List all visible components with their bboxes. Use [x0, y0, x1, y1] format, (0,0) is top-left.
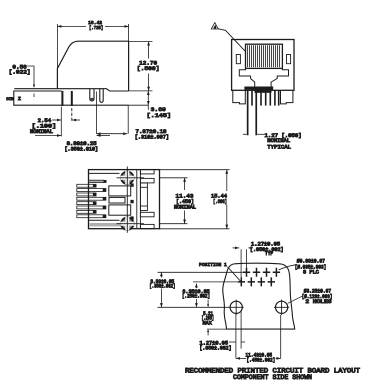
extension line 12.70 bottom	[129, 90, 153, 92]
svg-text:2 HOLES: 2 HOLES	[305, 299, 331, 305]
contact comb teeth	[77, 184, 106, 218]
dim 0.56 leader	[27, 66, 35, 97]
svg-text:POSITION 1: POSITION 1	[199, 262, 227, 268]
svg-text:[.250±.002]: [.250±.002]	[182, 294, 210, 300]
svg-text:[.022]: [.022]	[9, 68, 31, 75]
spine rects	[140, 170, 154, 229]
extension bottom pin row	[193, 281, 237, 283]
side view base plate top line	[14, 89, 128, 91]
mounting hole left	[230, 301, 242, 313]
right ear notch	[287, 55, 291, 64]
crosshair vertical	[126, 167, 128, 233]
revision triangle flag	[211, 23, 218, 29]
front view outer body	[232, 40, 294, 91]
inner row pin squares	[130, 183, 133, 219]
extension top pin row	[158, 271, 243, 273]
dim 2.54	[52, 119, 80, 121]
dim 5.21 max	[207, 300, 209, 336]
left ear notch	[236, 55, 240, 64]
extension line body right lower	[127, 105, 129, 134]
dim 1.27 typ top	[233, 248, 251, 278]
svg-text:[.350±.002]: [.350±.002]	[149, 283, 175, 289]
svg-text:8 PLC: 8 PLC	[303, 270, 319, 276]
mounting hole right	[276, 301, 288, 313]
svg-text:NOMINAL: NOMINAL	[30, 129, 53, 135]
dim 18.42	[57, 24, 128, 69]
dim 8.89 pcb	[160, 272, 162, 307]
svg-text:[.450±.002]: [.450±.002]	[247, 358, 276, 364]
pin P2 side view	[71, 91, 73, 106]
right bottom tab	[281, 90, 293, 104]
svg-text:Z: Z	[18, 96, 21, 102]
crosshair horizontal top	[117, 177, 145, 179]
svg-text:[.310±.007]: [.310±.007]	[135, 135, 169, 141]
extension line peg right	[96, 92, 98, 134]
pcb outline blob	[223, 263, 295, 329]
svg-text:[.145]: [.145]	[147, 112, 172, 119]
dim 3.69	[147, 91, 149, 105]
top gray contact strip	[89, 180, 104, 182]
svg-text:[.725]: [.725]	[89, 25, 103, 31]
pin holes top row	[243, 268, 280, 277]
side view front box (DIM Z)	[14, 91, 62, 105]
side view body outline	[57, 41, 128, 91]
leader from flag	[218, 29, 245, 52]
bottom view body	[89, 170, 160, 229]
contact block hatched	[246, 44, 283, 68]
dim 1.27 bottom	[229, 341, 236, 343]
dim 8.89+-0.25	[35, 135, 110, 137]
extension hole centerline	[158, 306, 230, 308]
pin P2 hidden line	[71, 108, 73, 121]
dim 11.43 mid	[160, 178, 188, 224]
svg-text:[.050±.002]: [.050±.002]	[200, 346, 232, 352]
dia 3.25 callout	[288, 296, 303, 304]
svg-text:NOMINAL: NOMINAL	[267, 138, 290, 144]
svg-text:TYPICAL: TYPICAL	[267, 144, 291, 150]
svg-text:[.608]: [.608]	[213, 199, 227, 205]
pin P1 side view	[61, 91, 63, 106]
svg-text:4: 4	[214, 26, 216, 30]
inner rectangles	[109, 186, 131, 215]
latch slot bar	[255, 87, 272, 93]
side view body bottom line	[62, 104, 129, 106]
svg-text:Ø0.89±0.07: Ø0.89±0.07	[297, 257, 325, 264]
peg post 2	[100, 89, 103, 102]
dim 11.43 bottom	[236, 311, 281, 358]
spine lines	[136, 170, 138, 229]
crosshair horizontal bottom	[117, 223, 145, 225]
left bottom tab	[233, 90, 246, 104]
svg-text:MAX: MAX	[203, 321, 212, 327]
bottom gray strip	[89, 223, 124, 226]
svg-text:TYP: TYP	[265, 251, 273, 257]
dim 1.27 nominal typical	[243, 133, 264, 135]
dim 6.35 pcb	[195, 284, 197, 308]
dia 0.89 callout	[279, 265, 296, 270]
extension bottom edge	[207, 328, 227, 330]
dim 15.44	[160, 170, 230, 229]
svg-text:[.500]: [.500]	[137, 65, 160, 72]
svg-text:DIM: DIM	[6, 98, 14, 102]
dim 12.70	[148, 42, 150, 91]
peg post 1	[90, 89, 94, 101]
extension line 12.70 top	[129, 41, 153, 43]
pin holes bottom row	[238, 277, 275, 286]
svg-text:COMPONENT SIDE SHOWN: COMPONENT SIDE SHOWN	[233, 374, 312, 382]
svg-text:18.42: 18.42	[88, 20, 102, 26]
socket cavity outline	[239, 68, 288, 87]
extension line 3.69 bottom	[129, 104, 149, 106]
svg-text:NOMINAL: NOMINAL	[174, 205, 196, 211]
svg-text:[.350±.010]: [.350±.010]	[65, 147, 99, 153]
extension line pin1 left	[60, 107, 62, 137]
front view pins	[247, 90, 280, 135]
post circle top (shaded)	[121, 172, 133, 184]
dim 7.87	[97, 133, 128, 135]
post circle bottom (shaded)	[121, 218, 133, 230]
